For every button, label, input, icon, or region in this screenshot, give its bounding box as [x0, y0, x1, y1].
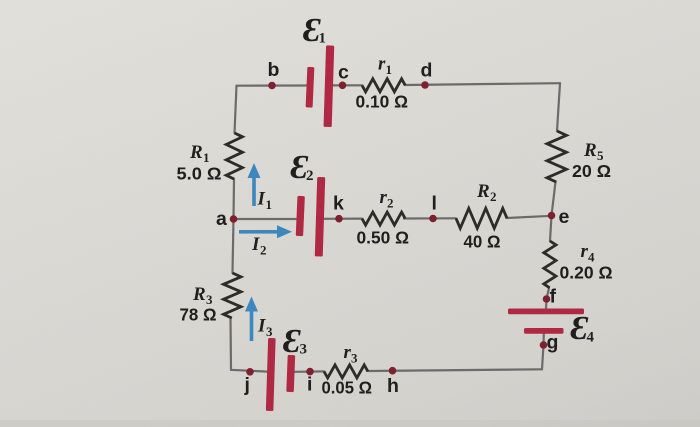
svg-text:2: 2	[306, 168, 314, 184]
svg-text:l: l	[432, 193, 437, 215]
svg-text:c: c	[338, 62, 349, 84]
svg-text:R: R	[583, 140, 597, 161]
svg-text:I: I	[257, 316, 266, 337]
svg-text:Ɛ: Ɛ	[283, 323, 301, 360]
svg-text:0.10 Ω: 0.10 Ω	[356, 92, 409, 112]
node d	[421, 81, 429, 89]
node h	[389, 367, 397, 375]
svg-text:40 Ω: 40 Ω	[464, 232, 501, 252]
current arrow I1	[248, 163, 261, 206]
svg-text:g: g	[547, 332, 559, 354]
wire r2 to R2	[404, 217, 456, 219]
resistor r2 0.50 ohm	[362, 212, 405, 225]
battery E1 short plate	[306, 67, 315, 108]
wire R5 to node e	[552, 182, 556, 216]
wire battery E2 to r2	[324, 218, 362, 220]
svg-text:3: 3	[300, 342, 308, 358]
svg-text:j: j	[244, 374, 250, 396]
battery E4 short plate (horizontal)	[524, 328, 564, 334]
resistor r4 0.20 ohm (vertical)	[544, 241, 556, 288]
battery E2 long plate	[315, 177, 325, 257]
resistor R2 40 ohm	[456, 208, 507, 228]
svg-text:3: 3	[266, 324, 273, 339]
svg-text:k: k	[333, 193, 344, 215]
current arrow I3	[245, 297, 258, 342]
svg-text:R: R	[192, 284, 206, 305]
wire R3 to bottom-left corner	[231, 318, 268, 372]
svg-text:R: R	[476, 181, 490, 202]
svg-text:1: 1	[319, 31, 327, 47]
node b	[268, 82, 276, 90]
wire top-right corner to R5	[557, 83, 560, 131]
svg-text:1: 1	[266, 197, 273, 212]
svg-text:0.50 Ω: 0.50 Ω	[357, 228, 410, 248]
node g	[540, 341, 548, 349]
wire r3 to bottom-right corner	[368, 369, 542, 371]
svg-text:d: d	[421, 60, 433, 82]
svg-text:1: 1	[386, 62, 393, 77]
resistor R5 20 ohm (vertical)	[547, 131, 567, 182]
svg-text:78 Ω: 78 Ω	[180, 305, 217, 325]
wire R2 to node e	[507, 216, 552, 218]
wire battery E1 to r1	[333, 84, 362, 86]
node a	[230, 215, 238, 223]
svg-text:I: I	[257, 189, 266, 210]
wire top-left corner to battery E1	[237, 84, 308, 86]
svg-text:3: 3	[351, 351, 358, 366]
wire node a to battery E2	[234, 218, 297, 220]
svg-text:a: a	[216, 208, 227, 230]
wire left vertical top segment	[235, 86, 237, 133]
node f	[543, 295, 551, 303]
svg-text:e: e	[559, 206, 570, 228]
svg-text:i: i	[307, 374, 312, 396]
battery E3 short plate	[286, 355, 295, 392]
wire node e to r4	[550, 216, 552, 242]
node i	[306, 368, 314, 376]
wire r4 to node f	[546, 288, 549, 309]
svg-text:20 Ω: 20 Ω	[572, 161, 611, 181]
battery E4 long plate (horizontal)	[508, 309, 584, 315]
node l	[429, 215, 437, 223]
node k	[335, 215, 343, 223]
node c	[339, 82, 347, 90]
wire r1 to top-right corner	[405, 83, 560, 85]
current arrow I2	[239, 225, 292, 238]
svg-text:b: b	[268, 59, 280, 81]
svg-text:2: 2	[387, 196, 394, 211]
resistor r3 0.05 ohm	[324, 365, 368, 378]
resistor R3 78 ohm (vertical)	[224, 273, 242, 318]
svg-text:0.20 Ω: 0.20 Ω	[560, 263, 613, 283]
svg-text:2: 2	[490, 189, 497, 204]
resistor R1 5.0 ohm (vertical)	[226, 133, 242, 179]
svg-text:f: f	[550, 286, 557, 308]
svg-text:2: 2	[260, 243, 267, 258]
wire node a to R3	[233, 219, 234, 273]
svg-text:5.0 Ω: 5.0 Ω	[177, 164, 222, 184]
wire battery E4 to node g and corner	[542, 334, 544, 370]
wire R1 to node a	[232, 179, 235, 219]
svg-text:4: 4	[587, 330, 595, 346]
battery E3 long plate	[266, 338, 276, 411]
node j	[246, 368, 254, 376]
svg-text:I: I	[251, 234, 260, 255]
resistor r1 0.10 ohm	[362, 79, 405, 92]
wire battery E3 to r3	[295, 370, 325, 373]
battery E2 short plate	[296, 196, 305, 236]
svg-text:R: R	[189, 142, 203, 163]
svg-text:h: h	[387, 375, 399, 397]
svg-text:0.05 Ω: 0.05 Ω	[322, 378, 373, 398]
node e	[548, 212, 556, 220]
battery E1 long plate	[324, 45, 335, 127]
